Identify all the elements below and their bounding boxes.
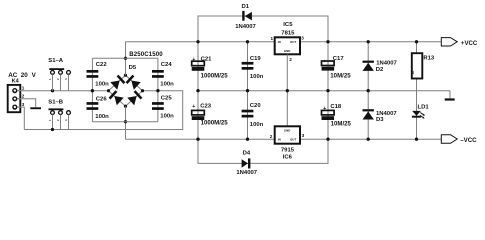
wire IC5 ground pin [286, 54, 288, 126]
svg-text:–VCC: –VCC [460, 137, 477, 144]
svg-text:OUT: OUT [290, 137, 296, 141]
wire positive rail [126, 41, 442, 43]
wire negative rail [126, 138, 442, 140]
svg-text:1: 1 [271, 36, 274, 41]
capacitor C26 [87, 96, 108, 110]
node C19 top [246, 40, 249, 43]
svg-text:2: 2 [289, 57, 292, 62]
wire K4 pin 3 down [17, 107, 24, 129]
wire D4 branch [198, 139, 328, 163]
capacitor C21 [192, 57, 212, 71]
svg-text:B250C1500: B250C1500 [129, 51, 163, 58]
svg-text:+: + [323, 106, 326, 112]
svg-text:C26: C26 [96, 96, 108, 102]
svg-text:D4: D4 [243, 151, 251, 157]
op-amp U1 regulator IC5 7815 [271, 22, 305, 62]
wire bridge - output down [125, 106, 127, 139]
svg-text:C19: C19 [250, 56, 262, 62]
svg-text:1N4007: 1N4007 [235, 24, 256, 30]
label C18 value [331, 120, 352, 127]
regulator IC6 7915 [270, 126, 305, 160]
wire ground rail [198, 90, 450, 92]
node D2 top [367, 40, 370, 43]
svg-text:C24: C24 [161, 62, 173, 68]
svg-text:GND: GND [284, 129, 290, 133]
svg-text:+: + [192, 104, 195, 110]
label C25 value [160, 114, 174, 120]
node C21/C23 ground [196, 89, 199, 92]
node S1-A output junction [51, 89, 54, 92]
diode D1 [235, 4, 256, 30]
label C20 value [250, 122, 264, 128]
node bridge bottom tie [124, 120, 127, 123]
wire D1 branch [198, 16, 328, 42]
label C24 value [160, 82, 174, 88]
node S1-B output junction [51, 128, 54, 131]
diode D3 [363, 109, 398, 123]
svg-text:2: 2 [270, 134, 273, 139]
node C24/C25 mid [156, 89, 159, 92]
svg-text:C22: C22 [96, 62, 108, 68]
node C20 bottom [246, 138, 249, 141]
capacitor C25 [152, 96, 172, 110]
switch S1-B [48, 100, 71, 130]
wire C24/C25 column [157, 58, 159, 122]
svg-text:C18: C18 [330, 104, 342, 110]
svg-text:GND: GND [284, 49, 290, 53]
svg-text:OUT: OUT [290, 40, 296, 44]
node C17/C18 ground [326, 89, 329, 92]
capacitor C24 [152, 62, 172, 78]
LED LD1 [412, 105, 429, 119]
node +VCC output tag [441, 38, 478, 47]
switch S1-A [48, 58, 71, 91]
wire C19/C20 column [247, 42, 249, 139]
ground symbol right [445, 91, 455, 101]
svg-text:100n: 100n [95, 114, 109, 120]
node C22/C26 mid [91, 89, 94, 92]
capacitor C18 [322, 104, 342, 120]
capacitor C22 [87, 62, 108, 78]
wire snubber top [92, 57, 157, 59]
svg-text:K4: K4 [12, 79, 20, 85]
label C19 value [250, 74, 264, 80]
svg-text:S1–B: S1–B [48, 100, 63, 106]
capacitor C23 [192, 104, 212, 120]
node D3 bottom [367, 138, 370, 141]
svg-text:R13: R13 [423, 55, 435, 61]
capacitor C20 [242, 103, 262, 118]
diode D2 [363, 61, 398, 73]
node IC5/IC6 ground junction [286, 89, 289, 92]
svg-text:C23: C23 [200, 104, 212, 110]
node R13 top [415, 40, 418, 43]
svg-text:C25: C25 [161, 96, 173, 102]
svg-text:D2: D2 [376, 67, 384, 73]
svg-text:D3: D3 [376, 117, 384, 123]
connector K4 (AC 20 V input) [8, 72, 37, 112]
wire bridge + output up [125, 42, 127, 75]
node C17 top [326, 40, 329, 43]
svg-text:10M/25: 10M/25 [331, 120, 352, 127]
svg-text:3: 3 [301, 36, 304, 41]
svg-text:1N4007: 1N4007 [236, 170, 257, 176]
svg-text:IC5: IC5 [283, 22, 293, 28]
wire R13/LD1 column [416, 42, 418, 139]
node C18 bottom [326, 138, 329, 141]
svg-text:100n: 100n [250, 122, 264, 128]
node bridge top tie [124, 57, 127, 60]
ground symbol at K4 pin 2 [30, 107, 41, 109]
svg-text:1000M/25: 1000M/25 [201, 120, 229, 127]
svg-text:7915: 7915 [281, 147, 295, 153]
svg-text:1000M/25: 1000M/25 [201, 73, 229, 80]
label B250C1500 [129, 51, 163, 58]
wire K4 pin 2 to ground [17, 99, 36, 107]
node D2/D3 ground [367, 89, 370, 92]
svg-text:100n: 100n [160, 82, 174, 88]
capacitor C17 [322, 56, 345, 70]
label C22 value [95, 82, 109, 88]
wire C22/C26 column [91, 58, 93, 122]
svg-text:+: + [323, 59, 326, 65]
label C23 value [201, 120, 229, 127]
svg-text:LD1: LD1 [418, 105, 430, 111]
resistor R13 [411, 53, 435, 78]
svg-text:IC6: IC6 [283, 154, 293, 160]
svg-text:S1–A: S1–A [48, 58, 63, 64]
svg-text:C20: C20 [250, 103, 262, 109]
svg-text:20: 20 [21, 72, 29, 79]
diode D4 [236, 151, 257, 176]
wire snubber bottom [92, 121, 157, 123]
svg-text:IN: IN [278, 138, 281, 142]
wire C21/C23 column [197, 42, 199, 139]
wire AC1 (K4 pin 1 to bridge left) [17, 90, 109, 92]
svg-text:D1: D1 [242, 4, 250, 10]
svg-text:IN: IN [278, 40, 281, 44]
node LD1 bottom [415, 138, 418, 141]
svg-text:1: 1 [22, 85, 25, 90]
svg-text:1N4007: 1N4007 [376, 61, 397, 67]
label C21 value [201, 73, 229, 80]
node -VCC output tag [441, 135, 477, 145]
svg-text:100n: 100n [160, 114, 174, 120]
node C23 bottom [196, 138, 199, 141]
svg-text:10M/25: 10M/25 [330, 72, 351, 79]
svg-text:100n: 100n [95, 82, 109, 88]
node C21 top [196, 40, 199, 43]
wire D2/D3 column [367, 42, 369, 139]
svg-text:+VCC: +VCC [461, 40, 478, 47]
svg-text:3: 3 [22, 102, 25, 107]
node C19/C20 ground [246, 89, 249, 92]
wire AC2 (S1-B row to bridge right) [24, 91, 182, 130]
svg-text:100n: 100n [250, 74, 264, 80]
label C26 value [95, 114, 109, 120]
svg-text:C21: C21 [201, 57, 213, 63]
svg-text:3: 3 [302, 133, 305, 138]
label C17 value [330, 72, 351, 79]
svg-text:+: + [192, 57, 195, 63]
svg-text:7815: 7815 [281, 30, 295, 36]
bridge rectifier D5 [107, 65, 144, 108]
svg-text:2: 2 [22, 94, 25, 99]
svg-text:1k: 1k [411, 71, 415, 75]
capacitor C19 [242, 56, 262, 70]
wire C17/C18 column [327, 42, 329, 139]
svg-text:C17: C17 [333, 56, 345, 62]
svg-text:D5: D5 [129, 65, 137, 71]
